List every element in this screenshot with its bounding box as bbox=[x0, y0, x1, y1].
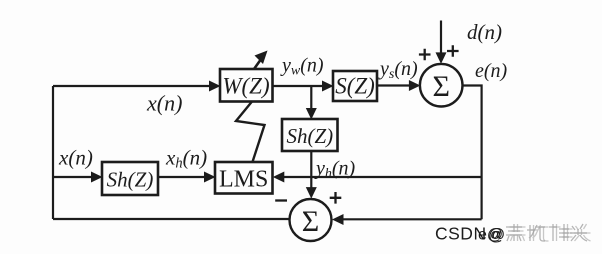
sign minus left of sum2 bbox=[275, 199, 287, 201]
svg-text:S(Z): S(Z) bbox=[335, 74, 375, 99]
arrowhead into sum1 left bbox=[409, 80, 421, 91]
arrowhead into sum2 right bbox=[332, 214, 344, 225]
block W(Z) bbox=[220, 69, 273, 102]
wire y_w(n) W(Z) to S(Z) bbox=[273, 85, 326, 87]
wire x(n) into Sh(Z) lower bbox=[53, 176, 95, 178]
wire x(n) into W(Z) bbox=[53, 85, 212, 87]
wire x_h(n) Sh(Z) to LMS bbox=[158, 176, 207, 178]
wire y_s(n) S(Z) to sum1 bbox=[377, 84, 412, 86]
svg-text:W(Z): W(Z) bbox=[222, 74, 269, 99]
summer sum1 bbox=[420, 64, 463, 107]
arrowhead into Sh(Z) lower bbox=[91, 172, 103, 183]
arrowhead into sum2 top bbox=[306, 187, 317, 199]
svg-text:Σ: Σ bbox=[302, 205, 319, 238]
svg-text:d(n): d(n) bbox=[467, 20, 502, 44]
block S(Z) bbox=[333, 71, 377, 101]
block Sh(Z) lower bbox=[102, 162, 158, 195]
svg-text:yw(n): yw(n) bbox=[280, 55, 324, 79]
wire branch down to Sh(Z) mid bbox=[310, 86, 312, 111]
arrowhead d(n) into sum1 top bbox=[436, 52, 447, 64]
summer sum2 bbox=[290, 199, 332, 241]
wire LMS zigzag adaptation to W(Z) bbox=[236, 102, 265, 162]
arrowhead into Sh(Z) mid top bbox=[306, 108, 317, 120]
wire adaptation arrow above W(Z) bbox=[254, 59, 262, 70]
svg-text:@: @ bbox=[488, 225, 505, 244]
sign plus right of sum1 bbox=[447, 45, 459, 57]
svg-text:Sh(Z): Sh(Z) bbox=[286, 124, 333, 148]
svg-text:Sh(Z): Sh(Z) bbox=[107, 168, 154, 192]
wire left rail x(n) feedback bbox=[52, 86, 54, 219]
wire d(n) into sum1 bbox=[440, 21, 442, 56]
wire e(n) into sum2 right bbox=[342, 218, 482, 220]
svg-text:LMS: LMS bbox=[219, 167, 268, 193]
sign plus left of sum1 bbox=[419, 49, 431, 61]
wire bottom rail bbox=[53, 218, 290, 220]
block Sh(Z) mid bbox=[282, 119, 338, 151]
svg-text:Σ: Σ bbox=[432, 70, 449, 103]
wire e(n) out of sum1 down right side bbox=[463, 86, 482, 220]
arrowhead into S(Z) bbox=[322, 81, 334, 92]
block LMS bbox=[215, 162, 273, 194]
sign plus right of sum2 bbox=[330, 192, 342, 204]
wire y_h(n) Sh(Z) mid down to sum2 bbox=[310, 151, 312, 190]
svg-text:x(n): x(n) bbox=[58, 146, 93, 170]
svg-text:xh(n): xh(n) bbox=[165, 146, 207, 172]
svg-text:x(n): x(n) bbox=[146, 91, 182, 116]
svg-text:yh(n): yh(n) bbox=[314, 158, 356, 182]
wire e(n) to LMS bbox=[282, 176, 482, 178]
arrowhead into LMS left bbox=[204, 172, 216, 183]
arrowhead into LMS right bbox=[273, 172, 285, 183]
svg-text:ys(n): ys(n) bbox=[378, 58, 418, 82]
svg-text:e(n): e(n) bbox=[475, 60, 508, 82]
watermark CJK glyph strokes bbox=[506, 224, 591, 241]
arrowhead adaptation arrow tip bbox=[255, 51, 268, 65]
arrowhead into W(Z) bbox=[209, 81, 221, 92]
